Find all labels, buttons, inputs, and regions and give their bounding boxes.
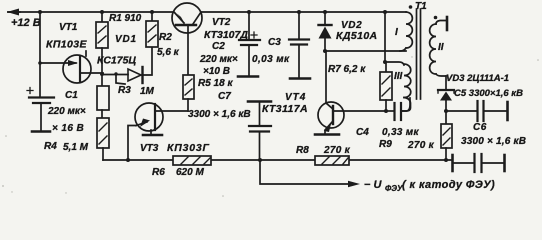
svg-text:220 мк×: 220 мк× [199, 54, 238, 65]
svg-text:I: I [395, 27, 398, 38]
svg-text:× 16 В: × 16 В [52, 123, 84, 134]
svg-text:КП303Г: КП303Г [167, 142, 210, 154]
svg-text:VT2: VT2 [212, 17, 231, 28]
svg-text:R4: R4 [44, 141, 57, 152]
winding II phase dot [434, 16, 438, 20]
resistor R2 [146, 12, 158, 47]
winding I phase dot [409, 5, 413, 9]
svg-text:VT4: VT4 [285, 92, 306, 103]
svg-text:×10 В: ×10 В [203, 66, 230, 77]
node VD2-VT4 collector [323, 49, 327, 53]
wire stub off VD1 wire [116, 74, 125, 84]
node rail-R1 [100, 10, 104, 14]
svg-text:R3: R3 [118, 85, 131, 96]
svg-text:270 к: 270 к [323, 145, 351, 156]
transformer T1 core [417, 9, 421, 99]
svg-text:КТ3117А: КТ3117А [262, 103, 308, 115]
resistor R6 [173, 156, 211, 165]
wire bottom rail [103, 159, 452, 161]
svg-text:R6: R6 [152, 167, 165, 178]
node rail-C2 [247, 10, 251, 14]
wire left vertical x40 (gate/C1) [39, 12, 41, 97]
svg-text:270 к: 270 к [407, 140, 435, 151]
transistor VT2 [172, 3, 202, 75]
capacitor C1 [27, 88, 54, 132]
resistor R5 [183, 75, 194, 111]
svg-text:С4: С4 [356, 127, 369, 138]
transformer T1 winding II [430, 21, 447, 77]
wire T1 vertical x385 [384, 12, 386, 62]
transformer T1 winding I [400, 12, 412, 51]
node VD1 wire stub [114, 72, 117, 75]
wire primary bottom y51 [325, 50, 406, 52]
node C7-rail-output [258, 158, 262, 162]
capacitor C5 [446, 101, 508, 121]
svg-text:5,6 к: 5,6 к [157, 47, 180, 58]
svg-text:5,1 М: 5,1 М [63, 142, 89, 153]
output arrow [348, 181, 360, 187]
node rail-VD2 [323, 10, 327, 14]
node R9-rail [444, 158, 448, 162]
svg-text:С1: С1 [65, 90, 78, 101]
resistor R4 [97, 118, 109, 160]
svg-text:R8: R8 [296, 145, 309, 156]
transistor VT1 [40, 51, 103, 83]
capacitor C6 [453, 154, 505, 172]
node rail-x40 [38, 10, 42, 14]
resistor R7 [380, 62, 392, 111]
svg-text:− U: − U [364, 179, 382, 191]
svg-text:R5 18 к: R5 18 к [198, 78, 233, 89]
+12V input arrow [7, 9, 20, 16]
svg-text:220 мк×: 220 мк× [47, 106, 86, 117]
node R7-C4-base [384, 109, 388, 113]
svg-text:1М: 1М [140, 86, 155, 97]
svg-text:VT3: VT3 [140, 143, 159, 154]
svg-text:R9: R9 [379, 139, 392, 150]
node rail-T1 [383, 10, 387, 14]
svg-text:( к катоду ФЭУ): ( к катоду ФЭУ) [402, 179, 495, 191]
node gate VT1 [38, 61, 42, 65]
resistor R3 [97, 74, 109, 118]
resistor R1 [96, 12, 108, 74]
diode VD2 [319, 12, 332, 51]
svg-text:II: II [438, 42, 444, 53]
svg-text:ФЭУ: ФЭУ [385, 184, 403, 193]
diode VD3 [438, 90, 454, 124]
svg-text:R1 910: R1 910 [109, 13, 142, 24]
svg-text:VD3 2Ц111А-1: VD3 2Ц111А-1 [446, 73, 509, 84]
node rail-R2 [150, 10, 154, 14]
svg-text:3300 × 1,6 кВ: 3300 × 1,6 кВ [461, 136, 526, 147]
node gate-rail [126, 158, 130, 162]
svg-text:КП103Е: КП103Е [46, 39, 88, 51]
wire top rail right (VT2 collector to transformer) [202, 11, 406, 13]
svg-text:С5 3300×1,6 кВ: С5 3300×1,6 кВ [454, 88, 523, 99]
node VD3-C5-R9 [444, 109, 448, 113]
svg-text:+12 В: +12 В [11, 17, 41, 29]
wire winding II bottom to VD3 [445, 76, 447, 89]
svg-text:0,33 мк: 0,33 мк [382, 127, 419, 138]
wire top rail left (to VT2 emitter) [8, 11, 172, 13]
svg-text:С2: С2 [212, 41, 225, 52]
transformer T1 winding III [401, 64, 411, 111]
capacitor C2 [238, 12, 260, 77]
svg-text:КД510А: КД510А [336, 30, 378, 42]
svg-text:R2: R2 [159, 32, 172, 43]
svg-text:3300 × 1,6 кВ: 3300 × 1,6 кВ [188, 109, 251, 120]
wire III top lead [385, 62, 404, 65]
svg-text:КС175Ц: КС175Ц [97, 55, 136, 67]
transistor VT3 [135, 103, 188, 135]
capacitor C7 [248, 102, 271, 161]
diode VD1 [103, 47, 152, 83]
wire output tap [260, 160, 350, 184]
svg-text:R7 6,2 к: R7 6,2 к [328, 64, 366, 75]
svg-text:С7: С7 [218, 91, 231, 102]
winding II top terminal bar [446, 17, 449, 30]
node rail-C3 [297, 10, 301, 14]
resistor R9 [441, 124, 452, 160]
transistor VT4 [315, 51, 386, 135]
resistor R8 [315, 156, 349, 165]
output label [364, 179, 495, 193]
svg-text:620 М: 620 М [176, 167, 204, 178]
svg-text:С3: С3 [268, 37, 281, 48]
node T1 III-top [383, 60, 387, 64]
capacitor C4 [386, 98, 410, 120]
wire VT3 gate vertical [128, 126, 136, 161]
svg-text:VT1: VT1 [59, 22, 78, 33]
svg-text:III: III [394, 71, 403, 82]
svg-text:VD1: VD1 [115, 34, 137, 45]
svg-text:0,03 мк: 0,03 мк [252, 54, 290, 65]
node VT1-R1-R3 [100, 72, 104, 76]
capacitor C3 [289, 12, 310, 79]
svg-text:С6: С6 [473, 122, 487, 133]
